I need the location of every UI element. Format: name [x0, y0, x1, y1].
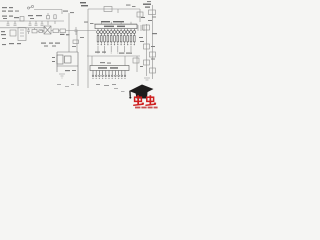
label specks K2: [52, 57, 76, 71]
label C21: [119, 53, 132, 54]
wire stubs to rail: [98, 46, 131, 52]
switch S1: [20, 17, 24, 22]
LED row D1-D11: [97, 29, 136, 36]
label specks under R1 R2: [60, 34, 70, 36]
module U4: [18, 28, 26, 41]
capacitor C3: [41, 21, 44, 26]
transformer T2: [44, 26, 51, 34]
capacitor C6: [75, 27, 78, 35]
label specks left: [2, 16, 19, 20]
label specks center column: [63, 11, 84, 48]
node dots under U2: [92, 78, 125, 79]
wire drop right: [124, 56, 126, 66]
resistor R2: [60, 29, 66, 33]
wire rail A: [0, 20, 64, 22]
capacitor C7: [27, 28, 30, 34]
resistor row R11-R21: [97, 36, 135, 44]
faint specks bottom-left: [57, 84, 125, 92]
timer IC U2: [90, 66, 129, 71]
fuse F1: [104, 7, 112, 12]
label specks right column: [139, 17, 157, 67]
logo text 虫虫 drawn as shapes: [135, 97, 154, 101]
capacitor C22: [133, 56, 139, 72]
ground: [59, 74, 65, 78]
label specks left of U1: [84, 22, 94, 25]
wire rail B: [0, 27, 46, 29]
wire top-left: [34, 9, 62, 11]
wire right vertical: [152, 5, 154, 79]
wire bottom rail: [87, 55, 140, 57]
wire cluster links: [40, 28, 46, 31]
capacitor C10: [149, 10, 156, 15]
logo graduation cap: [129, 85, 154, 99]
wire vertical center2: [87, 9, 89, 88]
ground right: [144, 78, 150, 80]
wire to IC: [51, 30, 96, 32]
U2 pins bottom: [92, 71, 126, 77]
label specks above U2: [100, 62, 111, 64]
resistor R5: [73, 40, 79, 43]
connector K1 label text: [2, 7, 13, 12]
transistor Q1: [138, 25, 144, 31]
capacitor C5: [14, 21, 17, 26]
diode D8: [137, 9, 143, 22]
diode D13: [38, 30, 45, 33]
transformer T1 label: [80, 2, 88, 6]
bridge rectifier BR1: [10, 30, 16, 36]
op-amp IC U1: [95, 24, 137, 28]
label specks below: [2, 43, 60, 47]
wire right vertical 2: [146, 24, 148, 76]
relay module K2: [57, 52, 78, 86]
capacitor C12: [144, 60, 150, 65]
diode D12: [47, 13, 50, 25]
label C20: [95, 52, 106, 53]
logo url text: [135, 107, 158, 109]
wire IC top rail: [94, 23, 137, 25]
wire vertical to relay: [76, 31, 78, 53]
resistor R9: [54, 15, 56, 24]
U1 pins top: [101, 22, 131, 24]
wire vertical center: [68, 13, 70, 52]
capacitor C13: [150, 68, 156, 73]
label specks below U2: [96, 84, 116, 86]
capacitor C11: [143, 25, 150, 30]
IC U1 label: [101, 21, 124, 22]
resistor R1: [53, 29, 59, 33]
node tick: [61, 10, 63, 15]
wire drop left: [91, 56, 93, 66]
resistor R8: [150, 52, 156, 57]
+V label: [143, 4, 151, 8]
capacitor C4: [7, 21, 10, 26]
capacitor C2: [35, 21, 38, 26]
capacitor C1: [29, 21, 32, 26]
resistor R10: [32, 28, 37, 33]
junction dots: [98, 53, 132, 54]
label specks mid: [28, 15, 42, 19]
wire top rail: [88, 8, 140, 10]
label specks above rail: [15, 1, 156, 18]
label specks: [1, 31, 6, 39]
node dots row: [97, 44, 134, 45]
resistor R7: [144, 44, 150, 49]
wire drop: [117, 9, 119, 13]
jumper JP1: [27, 5, 33, 9]
